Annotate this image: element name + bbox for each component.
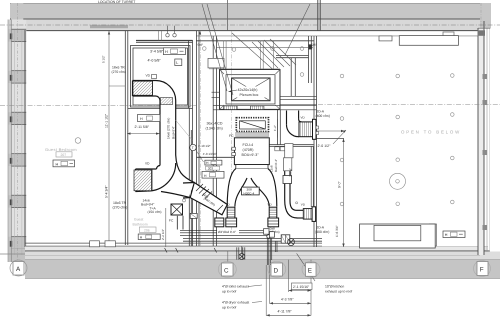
svg-text:Plenum box: Plenum box xyxy=(240,93,259,97)
svg-text:(1340 cfm): (1340 cfm) xyxy=(206,126,223,130)
svg-text:(270 cfm): (270 cfm) xyxy=(112,70,126,74)
svg-text:(400 cfm): (400 cfm) xyxy=(315,230,329,234)
svg-text:2'-11 5/8": 2'-11 5/8" xyxy=(135,125,150,129)
svg-text:4"Ø dryer exhaust: 4"Ø dryer exhaust xyxy=(222,301,249,305)
svg-text:5/8": 5/8" xyxy=(311,43,317,47)
svg-text:FC: FC xyxy=(169,219,174,223)
svg-text:H30C-4: H30C-4 xyxy=(244,191,255,195)
svg-text:up to roof: up to roof xyxy=(222,305,236,309)
svg-text:1'-10 1/2": 1'-10 1/2" xyxy=(198,144,211,148)
svg-text:4'-3 7/8": 4'-3 7/8" xyxy=(281,298,294,302)
svg-text:(400 cfm): (400 cfm) xyxy=(316,114,330,118)
svg-text:4'-0 13/16": 4'-0 13/16" xyxy=(203,152,217,156)
svg-text:18x6 TR: 18x6 TR xyxy=(113,201,127,205)
svg-text:203: 203 xyxy=(208,166,213,170)
svg-text:exhaust up to roof: exhaust up to roof xyxy=(325,289,352,293)
svg-text:206: 206 xyxy=(144,228,150,232)
svg-text:OPEN TO BELOW: OPEN TO BELOW xyxy=(401,130,461,135)
svg-text:H: H xyxy=(56,162,59,166)
svg-text:1'-2": 1'-2" xyxy=(273,125,277,131)
svg-text:5/8": 5/8" xyxy=(198,43,204,47)
svg-text:42x20x14(h): 42x20x14(h) xyxy=(238,88,258,92)
svg-text:LOCATION OF TURRET: LOCATION OF TURRET xyxy=(98,0,135,4)
svg-text:5'-4 3/4": 5'-4 3/4" xyxy=(105,185,109,198)
svg-text:4'-0 5/8": 4'-0 5/8" xyxy=(148,59,162,63)
svg-text:H: H xyxy=(445,233,448,237)
svg-text:H: H xyxy=(140,117,143,121)
svg-text:2'-1 15/16": 2'-1 15/16" xyxy=(293,285,310,289)
svg-text:12x8: 12x8 xyxy=(270,165,274,172)
svg-text:2'-0 1/2": 2'-0 1/2" xyxy=(318,144,332,148)
svg-text:L: L xyxy=(176,61,178,65)
svg-text:14x6 (270 cfm): 14x6 (270 cfm) xyxy=(167,118,171,139)
svg-text:Bod=9'4": Bod=9'4" xyxy=(172,126,176,139)
svg-text:18x6 TR: 18x6 TR xyxy=(112,66,125,70)
svg-text:207: 207 xyxy=(61,153,67,157)
svg-text:(270 cfm): (270 cfm) xyxy=(113,206,128,210)
svg-text:Bod=9'-4": Bod=9'-4" xyxy=(274,159,278,172)
svg-text:5 1/2": 5 1/2" xyxy=(102,55,106,63)
svg-text:up to roof: up to roof xyxy=(222,289,236,293)
svg-text:FCU-4: FCU-4 xyxy=(243,143,254,147)
svg-text:3'x4'-8": 3'x4'-8" xyxy=(289,168,293,177)
svg-text:4"Ø toilet exhaust: 4"Ø toilet exhaust xyxy=(222,285,249,289)
svg-text:11'-1 1/2": 11'-1 1/2" xyxy=(105,113,109,128)
svg-text:F: F xyxy=(480,267,484,274)
svg-text:JD-A: JD-A xyxy=(317,110,325,114)
svg-text:FC: FC xyxy=(229,134,234,138)
svg-text:VD: VD xyxy=(146,74,151,78)
svg-text:H: H xyxy=(165,50,168,54)
svg-text:(150 cfm): (150 cfm) xyxy=(148,210,162,214)
svg-text:D: D xyxy=(274,267,279,274)
svg-text:3'-4 5/8": 3'-4 5/8" xyxy=(150,50,164,54)
svg-text:2'-2 1/4": 2'-2 1/4" xyxy=(161,229,165,240)
svg-text:(470R): (470R) xyxy=(243,148,254,152)
svg-text:BOU=9'-3": BOU=9'-3" xyxy=(242,153,260,157)
svg-text:Ø4"Øod 9'-6": Ø4"Øod 9'-6" xyxy=(218,230,236,234)
svg-text:VD: VD xyxy=(145,162,150,166)
svg-text:4'-11 7/8": 4'-11 7/8" xyxy=(278,310,293,314)
svg-text:36x14 CD: 36x14 CD xyxy=(207,122,223,126)
svg-text:JD-A: JD-A xyxy=(317,226,325,230)
svg-text:9'-0": 9'-0" xyxy=(338,180,342,188)
svg-text:10"Ø kitchen: 10"Ø kitchen xyxy=(325,285,344,289)
svg-text:T: T xyxy=(192,146,194,150)
svg-text:C: C xyxy=(224,267,229,274)
svg-text:Guest: Guest xyxy=(134,218,143,222)
svg-text:Bathroom: Bathroom xyxy=(133,222,148,226)
svg-text:Guest Bedroom: Guest Bedroom xyxy=(45,147,77,152)
svg-text:1'-6 3/4": 1'-6 3/4" xyxy=(335,225,339,237)
svg-text:E: E xyxy=(308,267,312,274)
